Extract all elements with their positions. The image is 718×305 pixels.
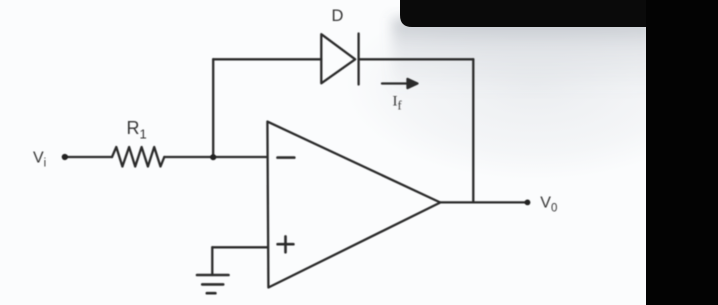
wire Vi to resistor: [65, 156, 112, 158]
op-amp non-inverting input plus sign: [278, 236, 294, 252]
wire inverting node to op-amp: [213, 156, 267, 158]
wire non-inverting input down to ground: [211, 247, 213, 275]
video overlay right black column: [646, 0, 718, 305]
ground: [197, 275, 229, 293]
background shadow under top bar: [392, 18, 654, 94]
wire diode to top-right corner: [359, 58, 474, 60]
resistor R1: [112, 147, 164, 167]
node Vi terminal dot: [62, 154, 68, 160]
wire op-amp output: [440, 201, 527, 203]
node V0 terminal dot: [525, 200, 531, 206]
wire non-inverting input horizontal: [212, 246, 267, 248]
wire resistor to inverting node: [164, 156, 213, 158]
junction inverting node dot: [210, 154, 216, 160]
wire feedback top to diode: [213, 58, 321, 60]
op-amp inverting input minus sign: [278, 156, 295, 159]
current arrow If: [382, 82, 409, 84]
background soft gray cloud: [345, 0, 718, 180]
wire feedback right vertical: [472, 59, 474, 202]
op-amp U1: [267, 122, 440, 288]
video overlay top black bar: [400, 0, 718, 27]
diode D: [321, 34, 358, 85]
svg-text:D: D: [332, 7, 344, 25]
wire feedback left vertical: [212, 59, 214, 157]
